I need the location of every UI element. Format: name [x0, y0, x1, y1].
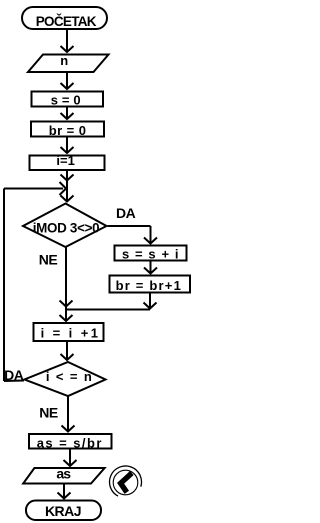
svg-text:n: n	[60, 53, 68, 68]
svg-text:DA: DA	[116, 205, 136, 221]
process box s=s+i	[115, 246, 187, 261]
NE wire diamond 2 bottom to as=s/br, with arrowhead	[67, 397, 69, 432]
wire start to input n, with arrowhead	[66, 29, 68, 52]
loop return wire left vertical segment	[3, 189, 5, 382]
NE main wire diamond 1 bottom to i=i+1, two arrowheads	[65, 248, 67, 322]
svg-text:i < = n: i < = n	[46, 369, 93, 384]
decision diamond 1 iMOD3<>0	[23, 204, 107, 248]
terminator KRAJ (end)	[26, 501, 101, 521]
svg-text:as = s/br: as = s/br	[37, 436, 103, 451]
process box br=0	[31, 122, 104, 137]
wire as=s/br to output as, with arrowhead	[69, 449, 71, 466]
process box i=i+1	[34, 323, 104, 341]
svg-text:NE: NE	[39, 251, 58, 267]
wire br=0 to i=1, with arrowhead	[66, 138, 68, 154]
wire i=1 to decision diamond 1, junction node with two arrowheads	[66, 171, 68, 203]
svg-text:s = s + i: s = s + i	[122, 247, 180, 262]
logo inner circle	[113, 470, 138, 495]
wire merge horizontal back to main line	[66, 309, 150, 311]
loop return wire entering junction, right arrowhead	[4, 188, 63, 190]
svg-text:s = 0: s = 0	[51, 93, 81, 108]
wire br=br+1 down, with arrowhead at corner	[149, 294, 151, 310]
logo outer arc	[110, 466, 142, 496]
loop return wire bottom horizontal segment from diamond 2	[4, 380, 24, 383]
svg-text:br = br+1: br = br+1	[116, 278, 182, 293]
svg-text:KRAJ: KRAJ	[45, 503, 81, 519]
svg-text:i = i +1: i = i +1	[41, 326, 101, 341]
DA branch wire vertical into s=s+i, with arrowhead	[150, 226, 152, 243]
svg-text:as: as	[56, 466, 71, 482]
wire input n to s=0, with arrowhead	[66, 73, 68, 89]
parallelogram input n	[28, 55, 109, 73]
wire s=s+i to br=br+1, with arrowhead	[150, 262, 152, 274]
wire output as to KRAJ, with arrowhead	[63, 485, 65, 499]
process box br=br+1	[110, 276, 191, 293]
wire i=i+1 to decision diamond 2, with arrowhead	[66, 342, 68, 360]
svg-text:br = 0: br = 0	[49, 123, 87, 138]
svg-text:iMOD 3<>0: iMOD 3<>0	[33, 221, 100, 236]
svg-text:NE: NE	[39, 404, 58, 420]
process box i=1	[30, 156, 105, 171]
svg-text:POČETAK: POČETAK	[36, 14, 97, 29]
parallelogram output as	[23, 468, 104, 484]
wire s=0 to br=0, with arrowhead	[66, 108, 68, 120]
logo chevron glyph	[121, 473, 132, 492]
process box s=0	[32, 92, 104, 107]
DA branch wire horizontal from diamond 1	[108, 225, 151, 227]
svg-text:i=1: i=1	[56, 153, 74, 168]
terminator POCETAK (start)	[22, 7, 107, 29]
svg-text:DA: DA	[4, 367, 24, 383]
process box as=s/br	[29, 434, 112, 449]
decision diamond 2 i<=n	[25, 362, 106, 396]
